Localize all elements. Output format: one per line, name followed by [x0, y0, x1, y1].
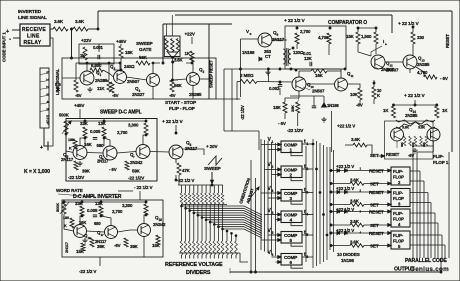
comp 3 output wire	[302, 192, 313, 194]
svg-text:RESET: RESET	[369, 231, 384, 236]
sweep dc ampl box	[66, 119, 157, 182]
svg-text:2N342: 2N342	[153, 222, 166, 227]
svg-text:16K: 16K	[315, 73, 324, 78]
wire t to bus dots	[312, 143, 314, 145]
transistor Q10	[292, 77, 306, 91]
svg-text:13K: 13K	[98, 121, 107, 126]
svg-text:FLOP 1: FLOP 1	[433, 160, 449, 165]
svg-text:SWEEP: SWEEP	[136, 41, 154, 47]
svg-text:DIVIDERS: DIVIDERS	[186, 270, 211, 276]
svg-text:3,300: 3,300	[122, 203, 133, 208]
wire to top bus	[88, 28, 98, 30]
wire q18 emitter	[143, 237, 145, 258]
resistor gate c	[176, 39, 179, 52]
divider staircase horizontals	[182, 205, 245, 207]
comp output bus verticals	[312, 139, 314, 268]
comp 5 feedback wire	[291, 243, 303, 246]
comp 6 input arrows	[278, 256, 281, 259]
wire bus B right drop	[391, 15, 393, 33]
svg-text:2N327: 2N327	[132, 92, 145, 97]
dc ampl inverter box	[62, 200, 163, 257]
svg-text:39K: 39K	[130, 244, 139, 249]
svg-text:39K: 39K	[400, 142, 404, 147]
wire osc rail top	[272, 39, 287, 41]
comparator COMP 4 box	[281, 211, 302, 223]
svg-text:2 MEG: 2 MEG	[240, 73, 254, 78]
comp 1 input arrows	[278, 143, 281, 146]
svg-text:2N342: 2N342	[130, 160, 143, 165]
comp 6 output wire	[302, 256, 313, 258]
wire q5 collector	[80, 138, 85, 146]
svg-text:0.002: 0.002	[269, 86, 280, 91]
wire q4 collector to 56K	[153, 63, 160, 74]
svg-text:2N507: 2N507	[381, 67, 394, 72]
ground q16	[82, 238, 87, 243]
resistor 10K b	[372, 87, 376, 99]
svg-text:+: +	[40, 145, 43, 151]
svg-text:6,800: 6,800	[91, 63, 102, 68]
relay box receive line relay	[20, 24, 50, 46]
svg-text:2N385: 2N385	[405, 113, 418, 118]
svg-text:3.6K: 3.6K	[402, 126, 410, 130]
svg-text:-22 1/2V: -22 1/2V	[240, 105, 245, 120]
resistor gate b	[171, 39, 174, 52]
ground osc	[265, 70, 270, 75]
svg-text:-: -	[9, 36, 11, 43]
diodes feed ff2	[337, 169, 340, 172]
comparator COMP 6 box	[281, 254, 302, 266]
wire junction down to line box	[71, 29, 73, 58]
svg-text:+22V: +22V	[81, 38, 92, 43]
diode pair gate	[168, 52, 179, 58]
wire 1k gate	[191, 37, 193, 44]
resistor 1K ff1 right	[435, 106, 439, 118]
wire q2 collector	[192, 62, 194, 73]
wire q13 emitter drop	[409, 69, 411, 73]
orientation adjust arrow	[248, 187, 259, 201]
svg-text:1K: 1K	[383, 108, 389, 113]
junction dots	[97, 28, 99, 30]
svg-text:+45V: +45V	[74, 103, 85, 108]
svg-text:FLOP: FLOP	[393, 217, 404, 222]
svg-text:1K: 1K	[185, 51, 191, 56]
svg-text:2N385: 2N385	[95, 78, 108, 83]
ground Q1	[87, 87, 92, 92]
svg-text:2,700: 2,700	[300, 29, 311, 34]
svg-text:COMPARATOR O: COMPARATOR O	[328, 20, 367, 26]
diodes feed ff5	[337, 231, 340, 234]
comp 3 feedback wire	[291, 201, 303, 204]
svg-text:RESET: RESET	[369, 209, 384, 214]
extra comp bus verticals	[305, 146, 307, 262]
comp 1 feedback wire	[291, 153, 303, 156]
comp 2 output wire	[302, 168, 313, 170]
parallel output horizontals	[410, 170, 420, 172]
wire q12 base from Ia	[371, 46, 382, 56]
wire reset feed ff5	[329, 232, 391, 234]
svg-text:2N117: 2N117	[185, 146, 198, 151]
comp 1 output wire	[302, 143, 313, 145]
transistor Q16	[74, 225, 87, 238]
ground q5	[77, 161, 82, 166]
ff1 inner resistors	[403, 136, 406, 146]
wire -22.5 inverter rail	[118, 190, 133, 192]
comp 5 output wire	[302, 234, 313, 236]
comp 3 input arrows	[278, 192, 281, 195]
svg-text:39K: 39K	[82, 169, 91, 174]
svg-text:RELAY: RELAY	[24, 40, 42, 46]
wire q13 emitter	[416, 67, 424, 77]
transistor Q4	[147, 74, 160, 87]
ground mid	[321, 117, 326, 122]
svg-text:1,500: 1,500	[361, 34, 372, 39]
comp 4 input arrows	[278, 213, 281, 216]
svg-text:FLOP: FLOP	[393, 196, 404, 201]
transistor Q7	[136, 145, 150, 159]
resistor gate a	[165, 39, 168, 52]
svg-text:10K: 10K	[350, 92, 359, 97]
svg-text:2N385: 2N385	[189, 92, 202, 97]
divider extra columns	[226, 231, 228, 241]
wire 16K rail	[299, 70, 311, 72]
wire osc rail extend left	[224, 68, 246, 70]
svg-text:LINE: LINE	[27, 34, 40, 40]
wire q17 collector	[101, 216, 111, 226]
transistor Q14a	[391, 128, 404, 141]
wire inverter bottom	[99, 257, 101, 266]
svg-text:3.6K: 3.6K	[418, 126, 426, 130]
svg-text:STOP: STOP	[46, 115, 50, 125]
svg-text:1K: 1K	[442, 108, 448, 113]
svg-text:+22 1/2 V: +22 1/2 V	[337, 124, 355, 129]
transistor Q2	[187, 73, 200, 86]
svg-text:SET: SET	[370, 202, 379, 207]
resistor Q3 emitter	[110, 82, 114, 93]
wire q3 base	[103, 70, 114, 77]
svg-text:RESET: RESET	[386, 152, 400, 157]
wire q8 collector right	[183, 149, 205, 155]
wire mid bottom	[284, 113, 286, 119]
svg-text:12K: 12K	[304, 56, 313, 61]
wire q10 emitter down	[285, 91, 299, 102]
wire q1 base input	[62, 77, 80, 79]
svg-text:+ 22 1/2 V: + 22 1/2 V	[398, 21, 419, 27]
svg-text:1K: 1K	[80, 53, 85, 58]
transistor Q13	[403, 55, 417, 69]
svg-text:FLIP - FLOP: FLIP - FLOP	[169, 106, 196, 112]
wire reset feed ff3	[329, 191, 391, 193]
wire 2meg down	[236, 82, 238, 101]
resistor 39K mid	[296, 102, 300, 113]
comp 6 feedback wire	[291, 265, 303, 268]
svg-text:- 6V: - 6V	[109, 167, 117, 172]
svg-text:39K: 39K	[290, 105, 295, 112]
svg-text:SWEEP D-C AMPL: SWEEP D-C AMPL	[100, 110, 142, 116]
wire osc bottom rail	[246, 68, 340, 70]
divider mid horizontal	[181, 204, 227, 206]
wire bias cap	[98, 44, 100, 52]
wire gate resistor risers	[166, 24, 168, 36]
resistor 3.6K second	[73, 27, 88, 31]
transistor Q12	[371, 55, 385, 69]
svg-text:56K: 56K	[174, 83, 183, 88]
wire reset feed ff2	[329, 170, 391, 172]
svg-text:FLOP: FLOP	[393, 239, 404, 244]
resistor 1K bias	[83, 47, 87, 60]
transformer	[283, 49, 286, 54]
svg-text:SET: SET	[370, 223, 379, 228]
wire bus C mid drop sweep reset	[208, 24, 210, 99]
comp 4 output wire	[302, 214, 313, 216]
svg-text:2N507: 2N507	[312, 89, 325, 94]
svg-text:CT: CT	[265, 54, 271, 59]
transistor Q3	[114, 71, 127, 84]
svg-text:240Ω: 240Ω	[124, 64, 135, 69]
resistor 1K gate	[190, 51, 194, 62]
svg-text:I: I	[383, 39, 384, 44]
comparator COMP 1 box	[281, 141, 302, 153]
svg-text:SWEEP RESET: SWEEP RESET	[209, 60, 214, 88]
comp 4 feedback wire	[291, 223, 303, 226]
wire right border reset bus	[451, 11, 453, 152]
svg-text:-22 1/2V: -22 1/2V	[287, 128, 304, 133]
svg-text:59K: 59K	[132, 169, 141, 174]
wire 330 comp	[412, 27, 414, 32]
wire q16 collector	[80, 216, 82, 225]
svg-text:2N385: 2N385	[417, 62, 430, 67]
svg-text:SET: SET	[370, 153, 379, 158]
svg-text:CODE INPUT 1: CODE INPUT 1	[2, 32, 7, 62]
wire q3 q4 base link	[127, 77, 148, 80]
wire q1 collector	[86, 70, 88, 71]
comp left lower verticals	[250, 160, 252, 272]
comp 2 input arrows	[278, 168, 281, 171]
svg-text:2,700: 2,700	[112, 209, 123, 214]
sweep waveform icon	[208, 156, 222, 165]
wire reset feed ff4	[329, 211, 391, 213]
wire 18K	[120, 44, 122, 46]
svg-text:+ 20V: + 20V	[206, 144, 218, 149]
wire q17 q18 link	[118, 230, 138, 232]
svg-text:10 DIODES: 10 DIODES	[337, 252, 360, 257]
wire vo node	[241, 38, 259, 40]
svg-text:PARALLEL CODE: PARALLEL CODE	[405, 258, 447, 264]
svg-text:+ 22 1/2 V: + 22 1/2 V	[162, 119, 183, 125]
svg-text:18K: 18K	[125, 50, 134, 55]
svg-text:RESET: RESET	[369, 168, 384, 173]
transistor Q8	[169, 145, 183, 159]
comp 5 input arrows	[278, 234, 281, 237]
svg-text:Genius.com: Genius.com	[410, 266, 449, 273]
bottom bus drops	[440, 258, 442, 272]
svg-text:0.005: 0.005	[90, 129, 101, 134]
resistor 5.6K	[74, 80, 78, 92]
resistor 11K	[107, 80, 111, 92]
wire mid long verticals	[223, 69, 225, 131]
wire q11 connections	[348, 84, 361, 88]
svg-text:-22 1/2V: -22 1/2V	[68, 175, 85, 180]
svg-text:START - STOP: START - STOP	[165, 100, 197, 106]
diodes feed ff4	[337, 210, 340, 213]
resistor 1K ff1 left	[392, 106, 396, 118]
resistor 56K q2	[170, 80, 174, 92]
flip-flop 4 box	[391, 209, 410, 227]
svg-text:0.005: 0.005	[87, 208, 98, 213]
svg-text:680: 680	[94, 221, 101, 226]
wire top bus B	[175, 14, 392, 16]
node 0.002	[279, 81, 281, 83]
junction dots internal	[86, 62, 88, 64]
svg-text:+ 22 1/2 V: + 22 1/2 V	[284, 18, 305, 24]
svg-text:0.001: 0.001	[93, 45, 104, 50]
svg-text:39K: 39K	[97, 244, 106, 249]
wire relay minus down to battery	[48, 38, 53, 146]
svg-text:3.6K: 3.6K	[174, 58, 184, 63]
ff1 top rail	[394, 104, 437, 106]
wire q2 base from gate	[173, 79, 187, 80]
svg-text:SET: SET	[370, 181, 379, 186]
comp 2 feedback wire	[291, 178, 303, 181]
wire ff1 transistor drops	[396, 141, 398, 148]
svg-text:SET: SET	[370, 243, 379, 248]
comparator COMP 2 box	[281, 166, 302, 178]
svg-text:LINE SIGNAL: LINE SIGNAL	[18, 15, 47, 21]
svg-text:SWEEP: SWEEP	[204, 166, 222, 172]
arrow sweep into dividers	[211, 172, 213, 181]
wire q16 base	[64, 214, 74, 231]
svg-text:+ 22 1/2 V: + 22 1/2 V	[404, 93, 425, 99]
wire comp top rail	[358, 27, 376, 29]
svg-text:11K: 11K	[97, 86, 105, 91]
wire 47K to rail	[178, 175, 180, 185]
transistor Q6	[103, 146, 117, 160]
wire q3 collector up	[103, 63, 120, 71]
svg-text:15K: 15K	[346, 34, 355, 39]
svg-text:GATE: GATE	[139, 47, 152, 53]
wire bus A left drop	[97, 11, 99, 29]
wire q8 emitter	[175, 159, 177, 163]
svg-text:17: 17	[101, 233, 105, 237]
flip-flop 3 box	[391, 189, 410, 207]
svg-text:- 6V: - 6V	[440, 76, 449, 81]
wire q11 to comparator	[340, 69, 342, 78]
resistor 18K	[119, 46, 123, 58]
wire top bus A	[98, 10, 452, 12]
svg-text:-22 1/2 V: -22 1/2 V	[177, 178, 195, 183]
wire q5 q6 link	[87, 152, 103, 155]
svg-text:1N198: 1N198	[242, 50, 255, 55]
wire q5 base	[66, 134, 74, 153]
transistor Q1	[80, 71, 94, 85]
wire bus C left drop	[162, 24, 164, 63]
svg-text:3.6K: 3.6K	[54, 19, 64, 24]
svg-text:-6V: -6V	[169, 93, 176, 98]
diodes feed ff3	[337, 190, 340, 193]
wire q7 to q8	[150, 151, 169, 154]
svg-text:56K: 56K	[139, 55, 148, 60]
svg-text:-22 1/2 V: -22 1/2 V	[79, 269, 97, 274]
wire q6 q7 link	[117, 152, 136, 154]
transistor Q14b	[427, 128, 440, 141]
svg-text:11: 11	[351, 74, 354, 78]
wire cap diode rail	[290, 95, 324, 97]
svg-text:2N117: 2N117	[272, 37, 285, 42]
svg-text:680: 680	[97, 143, 105, 148]
svg-text:K = X 1,000: K = X 1,000	[24, 169, 50, 175]
svg-text:1N198: 1N198	[327, 103, 339, 108]
wire line box right drop	[216, 98, 241, 100]
wire ampl top rail	[66, 120, 146, 122]
svg-text:3.6K: 3.6K	[75, 19, 85, 24]
svg-text:K: K	[64, 224, 67, 228]
svg-text:3.6K: 3.6K	[351, 137, 361, 142]
wire inverter top rail	[64, 201, 146, 203]
svg-text:- 22 1/2 V: - 22 1/2 V	[134, 185, 154, 190]
svg-text:500K: 500K	[55, 203, 60, 212]
svg-text:INVERTED: INVERTED	[18, 9, 42, 15]
svg-text:18K: 18K	[273, 105, 282, 110]
svg-text:o: o	[250, 32, 252, 36]
svg-text:FLIP-: FLIP-	[433, 154, 444, 159]
wire 0.002 drop	[267, 69, 269, 82]
svg-text:RESET: RESET	[369, 190, 384, 195]
svg-text:FLOP: FLOP	[393, 175, 404, 180]
wire q4 emitter down	[152, 87, 154, 100]
capacitor 0.002 symbol	[278, 85, 283, 87]
ff1 box	[385, 121, 434, 159]
comparator COMP 3 box	[281, 190, 302, 202]
wire comp mid	[358, 44, 371, 56]
svg-text:-6V: -6V	[114, 243, 121, 248]
wire top bus C	[163, 23, 232, 25]
resistor 18K	[283, 102, 287, 113]
parallel output bus lines	[412, 146, 414, 258]
bottom bus long	[230, 271, 441, 273]
sweep gate box	[164, 36, 180, 57]
wire 11K to rail	[108, 63, 110, 80]
resistor 330	[411, 32, 415, 44]
wire relay to resistor	[50, 28, 53, 30]
wire q1 collector up	[86, 63, 88, 70]
wire q7 collector	[143, 135, 146, 145]
wire q2 emitter down	[192, 86, 194, 100]
wire q16 q17 link	[87, 231, 105, 232]
svg-text:2N507: 2N507	[127, 79, 140, 84]
svg-text:2N117: 2N117	[97, 159, 109, 164]
svg-text:-22 1/2V: -22 1/2V	[128, 176, 145, 181]
wire q10 collector to q11	[306, 83, 336, 85]
svg-text:REFERENCE VOLTAGE: REFERENCE VOLTAGE	[165, 262, 223, 268]
flip-flop 2 box	[391, 167, 410, 185]
svg-text:-6V: -6V	[75, 93, 82, 98]
svg-text:- 6V: - 6V	[278, 121, 287, 126]
ground ff1	[412, 148, 417, 153]
svg-text:-6V: -6V	[112, 93, 119, 98]
svg-text:2N117: 2N117	[64, 241, 69, 253]
wire left drop to ff routing	[331, 111, 333, 152]
divider top rail	[178, 184, 223, 186]
flip-flop 5 box	[391, 231, 410, 249]
svg-text:2N117: 2N117	[61, 157, 74, 162]
oscillator box	[285, 26, 346, 69]
wire q12 q13 link	[385, 61, 404, 63]
wire ss down	[175, 125, 177, 133]
resistor 47K	[177, 163, 181, 175]
svg-text:RESET: RESET	[445, 34, 450, 48]
transistor Q5	[73, 146, 87, 160]
transistor Q11	[335, 78, 348, 91]
svg-text:47K: 47K	[182, 168, 191, 173]
